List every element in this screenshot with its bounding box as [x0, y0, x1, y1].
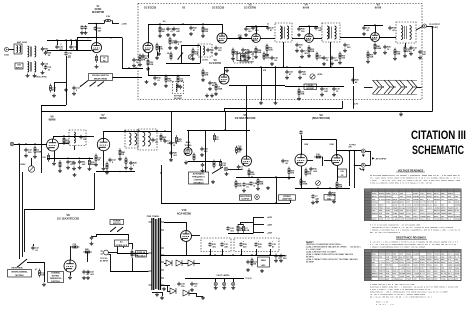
svg-text:8.2K: 8.2K [238, 186, 243, 188]
wire y271 [110, 271, 149, 273]
T2 secondary [335, 26, 337, 39]
svg-text:100K: 100K [329, 144, 334, 146]
junction [87, 37, 89, 39]
ground [297, 97, 301, 101]
tube V8b half 12AX7 [64, 260, 76, 272]
svg-text:100K: 100K [303, 184, 308, 186]
svg-text:1836V: 1836V [406, 218, 413, 221]
svg-text:CONTROL: CONTROL [194, 179, 205, 181]
junction [299, 66, 301, 68]
capacitor [242, 182, 245, 187]
capacitor [383, 45, 386, 50]
wire phono to box [113, 77, 143, 79]
multiplex output jack [255, 195, 260, 200]
capacitor [200, 147, 203, 152]
wire grid line y40 [47, 40, 92, 42]
svg-text:TO PIN 4,5 HTRS.: TO PIN 4,5 HTRS. [33, 76, 47, 79]
resistor [220, 159, 222, 168]
junction [135, 67, 137, 69]
chevron tie top [373, 80, 418, 82]
ground [409, 52, 413, 56]
ground [176, 84, 180, 88]
AC plug [101, 250, 109, 255]
wire rail jog x224 [224, 109, 226, 112]
wire tap1 [253, 217, 264, 219]
svg-text:454K4: 454K4 [455, 218, 462, 221]
wire [322, 157, 324, 166]
wire term2 lead [355, 165, 362, 167]
junction [110, 37, 112, 39]
ground [256, 187, 260, 191]
svg-text:8.2K: 8.2K [266, 58, 271, 60]
ground [72, 167, 76, 171]
lamp stem [215, 278, 217, 282]
AC interlock box [115, 240, 129, 247]
ground afc line [184, 161, 188, 165]
svg-text:AF OUTPUT: AF OUTPUT [376, 157, 388, 160]
ground [322, 62, 326, 66]
resistor [39, 269, 41, 278]
ground [254, 55, 258, 59]
svg-text:.727: .727 [386, 218, 391, 221]
diode D9 [183, 290, 189, 296]
svg-text:150: 150 [42, 157, 45, 159]
wire IF out down [427, 26, 433, 28]
tube V8a half 6DA7 [242, 156, 252, 166]
resistor [266, 44, 268, 53]
svg-text:1A07: 1A07 [413, 218, 418, 221]
coupling capacitor [281, 159, 284, 164]
RF coil L4 [35, 62, 36, 73]
ground [393, 57, 397, 61]
ground [190, 288, 194, 292]
pilot lamp 1 [214, 282, 217, 285]
svg-text:(DISABLE): (DISABLE) [193, 181, 203, 184]
ground [244, 33, 248, 37]
plate decoupling resistor [104, 20, 113, 22]
filter capacitor can A [201, 238, 231, 252]
ground [78, 166, 82, 170]
capacitor [388, 26, 391, 31]
svg-text:33K: 33K [260, 184, 264, 186]
svg-text:300Ω: 300Ω [4, 55, 9, 57]
switch contact c [98, 82, 104, 87]
capacitor [189, 26, 192, 31]
ground below coil [26, 74, 30, 78]
svg-text:1/2 ECC85: 1/2 ECC85 [144, 7, 157, 10]
junction [251, 176, 253, 178]
transformer winding stubs [149, 222, 165, 285]
resistor [160, 133, 162, 142]
capacitor [163, 139, 166, 144]
ground [42, 283, 46, 287]
wire [261, 67, 263, 101]
wire [103, 151, 105, 167]
svg-text:MUTING: MUTING [15, 275, 24, 277]
svg-text:1/2 12AX7/ECC83: 1/2 12AX7/ECC83 [57, 217, 80, 221]
wire input [14, 144, 47, 146]
wire [240, 222, 242, 224]
bias capacitor [246, 260, 249, 265]
squelch resistor [170, 52, 172, 61]
wire fuse top [132, 246, 134, 249]
ground [52, 94, 56, 98]
capacitor [24, 148, 27, 153]
ground [231, 286, 235, 290]
discriminator dashed box [234, 53, 254, 64]
svg-text:(1) ALL RESISTANCE VALUES IN O: (1) ALL RESISTANCE VALUES IN OHMS. [306, 245, 347, 248]
svg-text:1A2: 1A2 [399, 278, 402, 281]
svg-text:72326: 72326 [434, 218, 441, 221]
ground [168, 46, 172, 50]
ground [90, 242, 94, 246]
ground [241, 54, 245, 58]
svg-text:01: 01 [267, 24, 269, 26]
wire left vertical x41 [41, 105, 43, 173]
svg-text:CITATION III: CITATION III [411, 130, 466, 142]
svg-text:2.2K: 2.2K [251, 174, 256, 176]
wire rail v5a [299, 26, 318, 28]
ground [201, 296, 205, 300]
ground [274, 101, 278, 105]
svg-text:47K: 47K [142, 59, 146, 62]
antenna terminal [4, 47, 8, 51]
limiter diode pair D4 [407, 80, 417, 94]
corner jog [342, 101, 344, 109]
wire feedback down [349, 151, 351, 186]
trimmer C3 [41, 62, 44, 67]
pilot lamp 2 [223, 282, 226, 285]
wire V5a stem up [309, 26, 311, 34]
junction [202, 23, 204, 25]
ground [332, 93, 336, 97]
wire resistor rail [238, 224, 244, 226]
wire into IF box [122, 68, 143, 70]
junction [240, 254, 242, 256]
wire bracket top [365, 151, 370, 153]
svg-text:PILOT LAMPS: PILOT LAMPS [217, 274, 230, 277]
underline2 [396, 238, 427, 240]
ground [403, 54, 407, 58]
tube V6 6BN6 [47, 139, 59, 151]
resistor [106, 162, 108, 171]
resistor [236, 146, 238, 155]
junction [138, 130, 140, 132]
wire [117, 253, 149, 255]
wire [164, 285, 170, 287]
electrolytic C40a [208, 242, 211, 247]
cathode resistor [147, 58, 149, 67]
ground [72, 92, 76, 96]
wire x96.5 [96, 234, 98, 237]
IF transformer T1 [275, 23, 292, 42]
ground [214, 52, 218, 56]
wire x171 [171, 112, 173, 158]
electrolytic C41c [268, 242, 271, 247]
svg-text:220K: 220K [37, 152, 42, 154]
ground [24, 154, 28, 158]
ground [162, 287, 166, 291]
svg-text:BIAS: BIAS [261, 259, 266, 262]
junction [34, 143, 36, 145]
wire y234 [97, 234, 129, 236]
tube V2a 1/2 ECC85 [143, 43, 153, 53]
wire V6 stem [53, 136, 55, 139]
wire bracket bottom [365, 165, 370, 167]
ground on rail left [225, 69, 229, 73]
resistor [95, 154, 97, 163]
svg-text:47K: 47K [73, 245, 77, 248]
T1 primary [280, 26, 282, 39]
wire [275, 67, 277, 101]
svg-text:AUTOMATIC: AUTOMATIC [193, 172, 205, 175]
can stub [210, 249, 212, 255]
T2 primary [327, 26, 329, 39]
wire [353, 67, 355, 84]
ground [338, 61, 342, 65]
contact [177, 59, 178, 60]
svg-text:0A 7 31.A1 1E5 B11 131. 00 K: 0A 7 31.A1 1E5 B11 131. 00 K0. 2 7U 1 0E… [370, 295, 433, 298]
wire [90, 136, 94, 138]
junction [79, 158, 81, 160]
FM tuner IF section dashed enclosure [138, 4, 422, 100]
capacitor [314, 26, 317, 31]
detector transformer box A [125, 130, 138, 148]
svg-text:C30: C30 [340, 171, 343, 173]
contact [117, 231, 118, 232]
lamp stem2 [224, 278, 226, 282]
svg-text:A.37: A.37 [455, 209, 460, 212]
audio input terminal [10, 142, 14, 146]
ground [247, 56, 251, 60]
junction [70, 39, 72, 41]
capacitor [78, 160, 81, 165]
resistor [165, 75, 167, 84]
ground [164, 84, 168, 88]
wire AF tap [337, 150, 362, 152]
wire bracket vertical [370, 151, 372, 165]
wire [66, 56, 68, 82]
squelch loop bottom [166, 63, 200, 65]
capacitor [362, 26, 365, 31]
svg-text:+140V: +140V [121, 22, 127, 25]
switch contact b [90, 82, 96, 87]
wire [112, 21, 114, 24]
FM trap dashed box [173, 82, 184, 94]
capacitor [66, 160, 69, 165]
filter resistor2 [243, 224, 245, 233]
tuning indicator tube [184, 148, 192, 156]
capacitor [309, 167, 312, 172]
core [282, 27, 284, 39]
fuse F1 [131, 249, 133, 258]
diode D7 [188, 260, 194, 266]
resistor grid V6 [63, 136, 65, 145]
resistor [300, 178, 302, 187]
wire [117, 247, 119, 253]
ground [362, 32, 366, 36]
svg-text:TO PIN 7: TO PIN 7 [349, 145, 356, 147]
capacitor [174, 40, 177, 45]
ground [214, 286, 218, 290]
phono switch label box [89, 74, 113, 81]
junction [156, 130, 158, 132]
svg-text:0090A: 0090A [372, 275, 379, 278]
svg-text:130AA: 130AA [393, 278, 400, 281]
svg-text:CONTROL: CONTROL [51, 281, 61, 283]
resistor [176, 135, 178, 144]
ground [307, 54, 311, 58]
wire V8a stem [246, 85, 248, 156]
trap capacitor [206, 48, 209, 53]
squelch loop left [181, 46, 183, 64]
capacitor [320, 87, 323, 92]
ground [191, 57, 195, 61]
capacitor [241, 48, 244, 53]
resistor [125, 157, 127, 166]
wire y82 [54, 82, 66, 84]
ground [332, 200, 336, 204]
squelch loop top [181, 45, 200, 47]
wire AC top [108, 252, 117, 254]
trap coil [203, 46, 205, 55]
svg-text:FREQUENCY: FREQUENCY [192, 176, 205, 178]
capacitor [72, 161, 75, 166]
svg-text:IF OUTPUT: IF OUTPUT [429, 24, 440, 26]
switch lever [81, 81, 88, 87]
contact [222, 167, 223, 168]
can stub2 [222, 249, 224, 255]
svg-text:16Ω 8Ω 4Ω C: 16Ω 8Ω 4Ω C [350, 247, 362, 249]
pilot lamp 3 [232, 282, 235, 285]
bias resistor [251, 258, 253, 267]
quadrature coil [74, 132, 75, 143]
resistor [156, 43, 158, 52]
limiter diode pair D1 [373, 80, 383, 94]
svg-text:.001: .001 [67, 57, 71, 59]
core [284, 27, 286, 39]
core line [30, 47, 32, 57]
ground [373, 51, 377, 55]
ground [242, 189, 246, 193]
ground [225, 172, 229, 176]
resistor [308, 45, 310, 54]
local distant box [304, 84, 317, 90]
capacitor [129, 161, 132, 166]
svg-text:1/2 ECF80: 1/2 ECF80 [209, 62, 222, 65]
resistor [394, 48, 396, 57]
capacitor [285, 70, 288, 75]
wire B+ y255 [160, 255, 285, 257]
wire v7 bottom [96, 171, 135, 173]
svg-text:33K: 33K [180, 81, 184, 83]
wire tap3 [253, 232, 264, 234]
resistor [248, 168, 250, 177]
wire x94.5 up [94, 173, 96, 210]
junction [182, 23, 184, 25]
capacitor C6 [64, 51, 67, 56]
wire V9a cathode [301, 166, 303, 188]
ground [102, 167, 106, 171]
switch contact [80, 86, 81, 87]
wire [123, 247, 125, 249]
squelch loop right [200, 46, 202, 64]
ground [105, 171, 109, 175]
svg-text:306KA: 306KA [372, 212, 379, 215]
svg-text:MUTING: MUTING [52, 275, 60, 277]
ground [87, 167, 91, 171]
resistance readings table [365, 250, 462, 281]
AFC label box [189, 172, 209, 184]
junction [56, 39, 58, 41]
wire rail y86 [285, 86, 344, 88]
core line [30, 62, 32, 72]
wire rail y131 [104, 131, 172, 133]
capacitor [166, 27, 169, 32]
tube V2b 1/2 ECC85 [217, 33, 227, 43]
wire V4 stem up [256, 26, 258, 34]
ground [94, 163, 98, 167]
svg-text:2.2K: 2.2K [168, 81, 173, 83]
svg-text:6CA4/EZ80: 6CA4/EZ80 [177, 211, 192, 215]
svg-text:NUVISTOR: NUVISTOR [92, 11, 105, 14]
ground [166, 33, 170, 37]
wire V6 cathode rail [47, 158, 93, 160]
svg-text:(FRONT VIEW): (FRONT VIEW) [11, 267, 23, 269]
det coil A2 [135, 133, 137, 145]
diode D8 [170, 288, 176, 294]
svg-text:1/2 ECC85: 1/2 ECC85 [212, 7, 225, 10]
wire [324, 160, 333, 162]
svg-text:1/2 6DA7/ECC83: 1/2 6DA7/ECC83 [235, 116, 256, 120]
capacitor [270, 56, 273, 61]
svg-text:ADJ.: ADJ. [261, 264, 266, 267]
junction [354, 164, 356, 166]
wire vert pair a [19, 144, 21, 259]
resistor [59, 160, 61, 169]
diode D5 [166, 260, 172, 266]
wire AC bottom [108, 254, 110, 256]
ground below V1 [95, 65, 99, 69]
resistor [202, 25, 204, 34]
wire V9a plate [301, 135, 303, 155]
ground [274, 259, 278, 263]
notes text block [306, 241, 358, 263]
wire ant to balun [9, 49, 14, 51]
ground [201, 34, 205, 38]
junction [159, 23, 161, 25]
trap capacitor 2 [179, 85, 182, 90]
junction [269, 254, 271, 256]
wire pilot y278 [185, 278, 244, 280]
tube V10 6CA4 rectifier [181, 231, 192, 242]
wire diode row [164, 263, 166, 265]
antenna balun box [14, 44, 22, 54]
svg-text:(2) ALL RESISTORS 1/2 WATT.: (2) ALL RESISTORS 1/2 WATT. [306, 251, 337, 254]
wire [70, 272, 72, 276]
squelch pot [188, 55, 192, 59]
resistor [50, 84, 52, 93]
arrow below terminal 2 [362, 169, 365, 172]
capacitor [108, 158, 111, 163]
tube V9a 6DA7 [295, 154, 307, 166]
wire V9b cathode [337, 166, 339, 182]
svg-text:10K: 10K [195, 54, 199, 56]
wire to xfmr [117, 252, 119, 253]
AF output terminal 2 [361, 163, 365, 167]
junction [160, 172, 161, 173]
wire [292, 38, 305, 40]
